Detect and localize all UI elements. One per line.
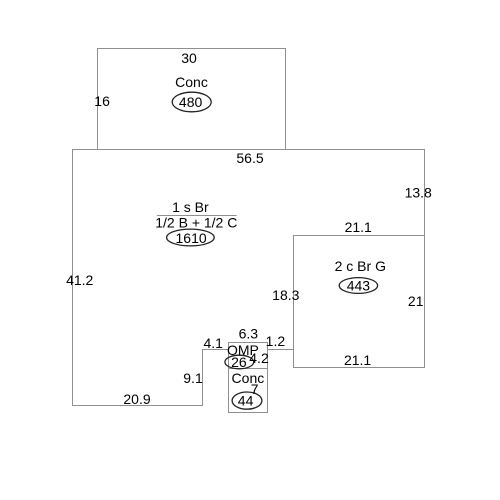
svg-text:16: 16 bbox=[94, 93, 110, 109]
svg-text:1610: 1610 bbox=[176, 230, 207, 246]
svg-text:18.3: 18.3 bbox=[272, 287, 299, 303]
svg-text:30: 30 bbox=[181, 50, 197, 66]
svg-text:26: 26 bbox=[231, 354, 247, 370]
svg-text:6.3: 6.3 bbox=[239, 326, 259, 342]
svg-text:44: 44 bbox=[238, 393, 254, 409]
svg-text:41.2: 41.2 bbox=[66, 272, 93, 288]
svg-text:20.9: 20.9 bbox=[123, 391, 150, 407]
svg-text:21: 21 bbox=[408, 293, 424, 309]
svg-text:Conc: Conc bbox=[175, 74, 208, 90]
svg-text:56.5: 56.5 bbox=[236, 150, 263, 166]
svg-text:21.1: 21.1 bbox=[344, 352, 371, 368]
svg-text:1 s Br: 1 s Br bbox=[172, 199, 209, 215]
svg-text:9.1: 9.1 bbox=[183, 370, 203, 386]
svg-text:1/2 B + 1/2 C: 1/2 B + 1/2 C bbox=[155, 215, 237, 231]
svg-text:13.8: 13.8 bbox=[405, 185, 432, 201]
svg-text:Conc: Conc bbox=[232, 370, 265, 386]
svg-text:443: 443 bbox=[347, 278, 371, 294]
svg-text:21.1: 21.1 bbox=[345, 219, 372, 235]
svg-text:480: 480 bbox=[179, 94, 203, 110]
svg-text:4.1: 4.1 bbox=[203, 335, 223, 351]
svg-text:1.2: 1.2 bbox=[266, 333, 286, 349]
svg-text:2 c Br G: 2 c Br G bbox=[335, 258, 386, 274]
